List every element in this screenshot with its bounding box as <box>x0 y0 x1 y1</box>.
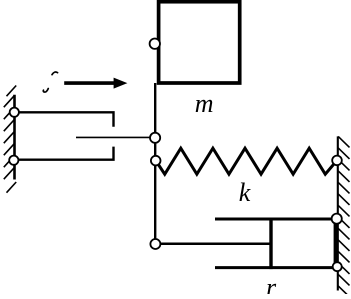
node on mass edge <box>150 39 160 49</box>
node bar spring joint <box>151 156 161 166</box>
left wall <box>13 95 16 180</box>
svg-text:r: r <box>266 273 277 294</box>
damper r cylinder bottom <box>215 266 337 269</box>
node left wall bottom <box>9 156 18 165</box>
damper r cylinder top <box>215 218 337 221</box>
force arrow f <box>64 78 127 89</box>
svg-text:k: k <box>239 178 251 207</box>
label f <box>43 72 57 92</box>
node right wall spring <box>332 156 342 166</box>
spring k <box>156 148 337 174</box>
node bar bottom joint <box>150 239 160 249</box>
damper r piston rod <box>155 243 271 246</box>
left wall hatching <box>4 86 16 193</box>
damper piston rod left <box>76 136 155 138</box>
svg-text:m: m <box>195 89 214 118</box>
mass m <box>159 2 240 83</box>
node right wall damper top <box>332 214 342 224</box>
node bar rod joint <box>150 133 160 143</box>
node left wall top <box>10 108 19 117</box>
right wall hatching <box>338 136 349 294</box>
right wall <box>337 136 339 290</box>
node right wall damper bottom <box>333 262 342 271</box>
vertical link bar <box>154 83 156 244</box>
damper r piston plate <box>269 218 272 270</box>
damper r cylinder right closure <box>334 218 337 270</box>
damper cylinder left top plate <box>14 112 113 126</box>
damper cylinder left bottom plate <box>14 147 113 160</box>
